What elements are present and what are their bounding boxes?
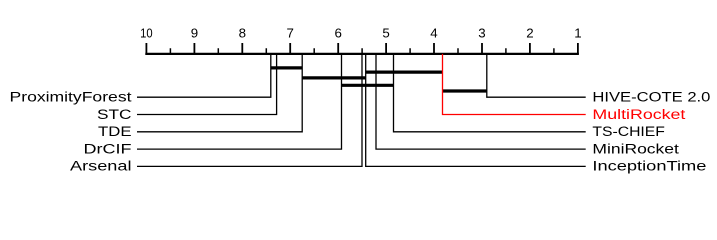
svg-text:8: 8 bbox=[239, 25, 246, 40]
svg-text:TDE: TDE bbox=[98, 124, 132, 139]
svg-text:7: 7 bbox=[286, 25, 293, 40]
svg-text:MultiRocket: MultiRocket bbox=[592, 107, 685, 122]
line TDE bbox=[137, 54, 302, 132]
line ProximityForest bbox=[137, 54, 271, 97]
svg-text:HIVE-COTE 2.0: HIVE-COTE 2.0 bbox=[592, 90, 710, 105]
svg-text:Arsenal: Arsenal bbox=[70, 159, 132, 174]
line MiniRocket bbox=[376, 54, 586, 149]
svg-text:4: 4 bbox=[430, 25, 437, 40]
svg-text:3: 3 bbox=[478, 25, 485, 40]
svg-text:TS-CHIEF: TS-CHIEF bbox=[592, 124, 665, 139]
svg-text:STC: STC bbox=[97, 107, 132, 122]
line MultiRocket (red) bbox=[443, 54, 586, 115]
svg-text:InceptionTime: InceptionTime bbox=[592, 159, 706, 174]
line STC bbox=[137, 54, 277, 115]
svg-text:9: 9 bbox=[191, 25, 198, 40]
clique bar DrCIF-Arsenal-InceptionTime-MiniRocket-TSCHIEF bbox=[342, 84, 394, 87]
svg-text:ProximityForest: ProximityForest bbox=[10, 90, 132, 105]
svg-text:1: 1 bbox=[574, 25, 581, 40]
major ticks 10..1 bbox=[146, 43, 578, 54]
line TS-CHIEF bbox=[394, 54, 586, 132]
clique bar MultiRocket-HIVECOTE2 bbox=[443, 89, 487, 92]
line HIVE-COTE 2.0 bbox=[487, 54, 586, 97]
line DrCIF bbox=[137, 54, 342, 149]
clique bar TDE-DrCIF-Arsenal-InceptionTime bbox=[302, 76, 366, 79]
svg-text:MiniRocket: MiniRocket bbox=[592, 141, 679, 156]
svg-text:5: 5 bbox=[382, 25, 389, 40]
clique bar PF-STC-TDE bbox=[271, 66, 303, 69]
line InceptionTime bbox=[366, 54, 586, 166]
svg-text:2: 2 bbox=[526, 25, 533, 40]
svg-text:6: 6 bbox=[334, 25, 341, 40]
svg-text:DrCIF: DrCIF bbox=[84, 141, 132, 156]
clique bar InceptionTime-MiniRocket-TSCHIEF-MultiRocket bbox=[366, 70, 443, 73]
line Arsenal bbox=[137, 54, 362, 166]
svg-text:10: 10 bbox=[140, 25, 153, 40]
minor ticks 9.5..1.5 bbox=[170, 48, 554, 54]
axis line bbox=[145, 53, 579, 55]
